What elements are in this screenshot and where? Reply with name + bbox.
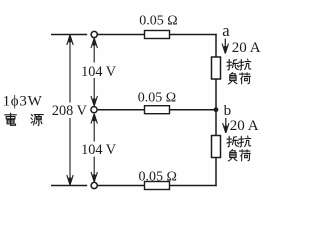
dimension arrow 104V upper xyxy=(91,38,97,106)
load2 kanji kou xyxy=(239,136,251,147)
load2 kanji tei xyxy=(227,136,238,147)
dimension arrow 104V lower xyxy=(91,114,97,182)
wire top right segment xyxy=(170,34,217,36)
load1 kanji tei xyxy=(227,59,238,70)
wire top middle segment xyxy=(97,34,144,36)
terminal bottom xyxy=(91,182,97,188)
wire node b to load2 xyxy=(215,110,217,136)
svg-text:0.05 Ω: 0.05 Ω xyxy=(139,13,177,28)
load resistor 1 xyxy=(212,57,221,79)
load1 kanji kou xyxy=(239,59,251,70)
current arrow 20A node b xyxy=(223,118,229,133)
wire middle left segment xyxy=(97,109,144,111)
svg-text:208 V: 208 V xyxy=(52,103,87,119)
source label kanji den (electric) xyxy=(5,113,17,125)
load2 kanji ka xyxy=(239,150,250,161)
svg-text:104 V: 104 V xyxy=(81,64,116,80)
load1 kanji fu xyxy=(228,73,236,84)
wire middle right segment xyxy=(170,109,217,111)
load2 kanji fu xyxy=(228,150,236,161)
resistor 0.05ohm middle xyxy=(145,106,170,114)
wire bottom-left segment xyxy=(51,185,87,187)
svg-text:0.05 Ω: 0.05 Ω xyxy=(138,169,176,184)
svg-text:20 A: 20 A xyxy=(232,40,261,56)
wire top-left segment xyxy=(51,34,87,36)
wire load2 to bottom corner xyxy=(215,158,217,187)
load resistor 2 xyxy=(212,136,221,158)
terminal middle xyxy=(91,107,97,113)
svg-text:1ϕ3W: 1ϕ3W xyxy=(3,93,43,109)
resistor 0.05ohm bottom xyxy=(145,182,170,190)
wire bottom middle segment xyxy=(97,185,144,187)
svg-text:104 V: 104 V xyxy=(81,142,116,158)
load1 kanji ka xyxy=(239,73,250,84)
svg-text:20 A: 20 A xyxy=(230,118,259,134)
node b junction dot xyxy=(214,107,219,112)
svg-text:0.05 Ω: 0.05 Ω xyxy=(138,90,176,105)
source label kanji gen (source) xyxy=(31,115,43,126)
wire bottom right segment xyxy=(170,185,217,187)
svg-text:a: a xyxy=(222,21,230,40)
dimension arrow 208V xyxy=(67,35,73,185)
resistor 0.05ohm top xyxy=(145,31,170,39)
wire right vertical a-side upper xyxy=(215,34,217,57)
wire load1 to node b xyxy=(215,79,217,110)
terminal top xyxy=(91,31,97,37)
svg-text:b: b xyxy=(224,103,232,119)
current arrow 20A node a xyxy=(222,39,228,54)
